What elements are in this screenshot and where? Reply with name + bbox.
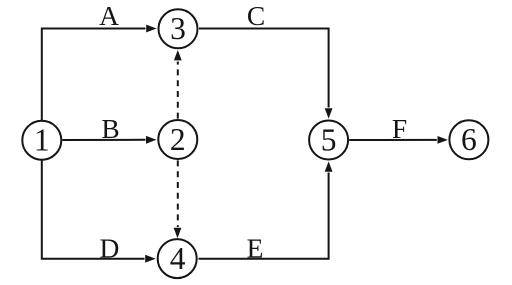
wire 1-3 (up from node 1 then right to node 3): [42, 29, 146, 121]
node 6: [449, 120, 488, 159]
svg-text:2: 2: [170, 122, 186, 157]
svg-text:3: 3: [170, 11, 186, 46]
arrowhead into node 4 left: [145, 255, 155, 263]
arrowhead into node 4 top: [174, 228, 182, 238]
wire 1-2 (horizontal): [62, 139, 145, 141]
arrowhead into node 3 bottom: [174, 50, 182, 60]
dashed wire 2-4 (vertical down): [177, 160, 179, 227]
svg-text:A: A: [99, 0, 119, 31]
wire 5-6 (horizontal): [349, 139, 437, 141]
wire 4-5 (right from node 4 then up to node 5): [199, 173, 329, 259]
node 1: [22, 121, 61, 160]
wire 1-4 (down from node 1 then right to node 4): [42, 160, 145, 259]
node 3: [159, 9, 198, 48]
arrowhead into node 5 top: [325, 108, 333, 118]
arrowhead into node 5 bottom: [325, 161, 333, 171]
arrowhead into node 2 left: [146, 136, 156, 144]
arrowhead into node 3 left: [146, 25, 156, 33]
arrowhead into node 6 left: [438, 136, 448, 144]
node 4: [158, 239, 197, 278]
node 5: [309, 121, 348, 160]
node 2: [158, 120, 197, 159]
svg-text:E: E: [247, 233, 264, 264]
svg-text:C: C: [247, 0, 265, 31]
svg-text:1: 1: [34, 123, 50, 158]
svg-text:F: F: [392, 113, 407, 144]
svg-text:4: 4: [170, 241, 186, 276]
svg-text:5: 5: [321, 122, 337, 157]
wire 3-5 (right from node 3 then down to node 5): [199, 29, 329, 108]
svg-text:6: 6: [461, 122, 477, 157]
svg-text:B: B: [101, 113, 119, 144]
dashed wire 2-3 (vertical up): [177, 62, 179, 119]
svg-text:D: D: [99, 233, 119, 264]
